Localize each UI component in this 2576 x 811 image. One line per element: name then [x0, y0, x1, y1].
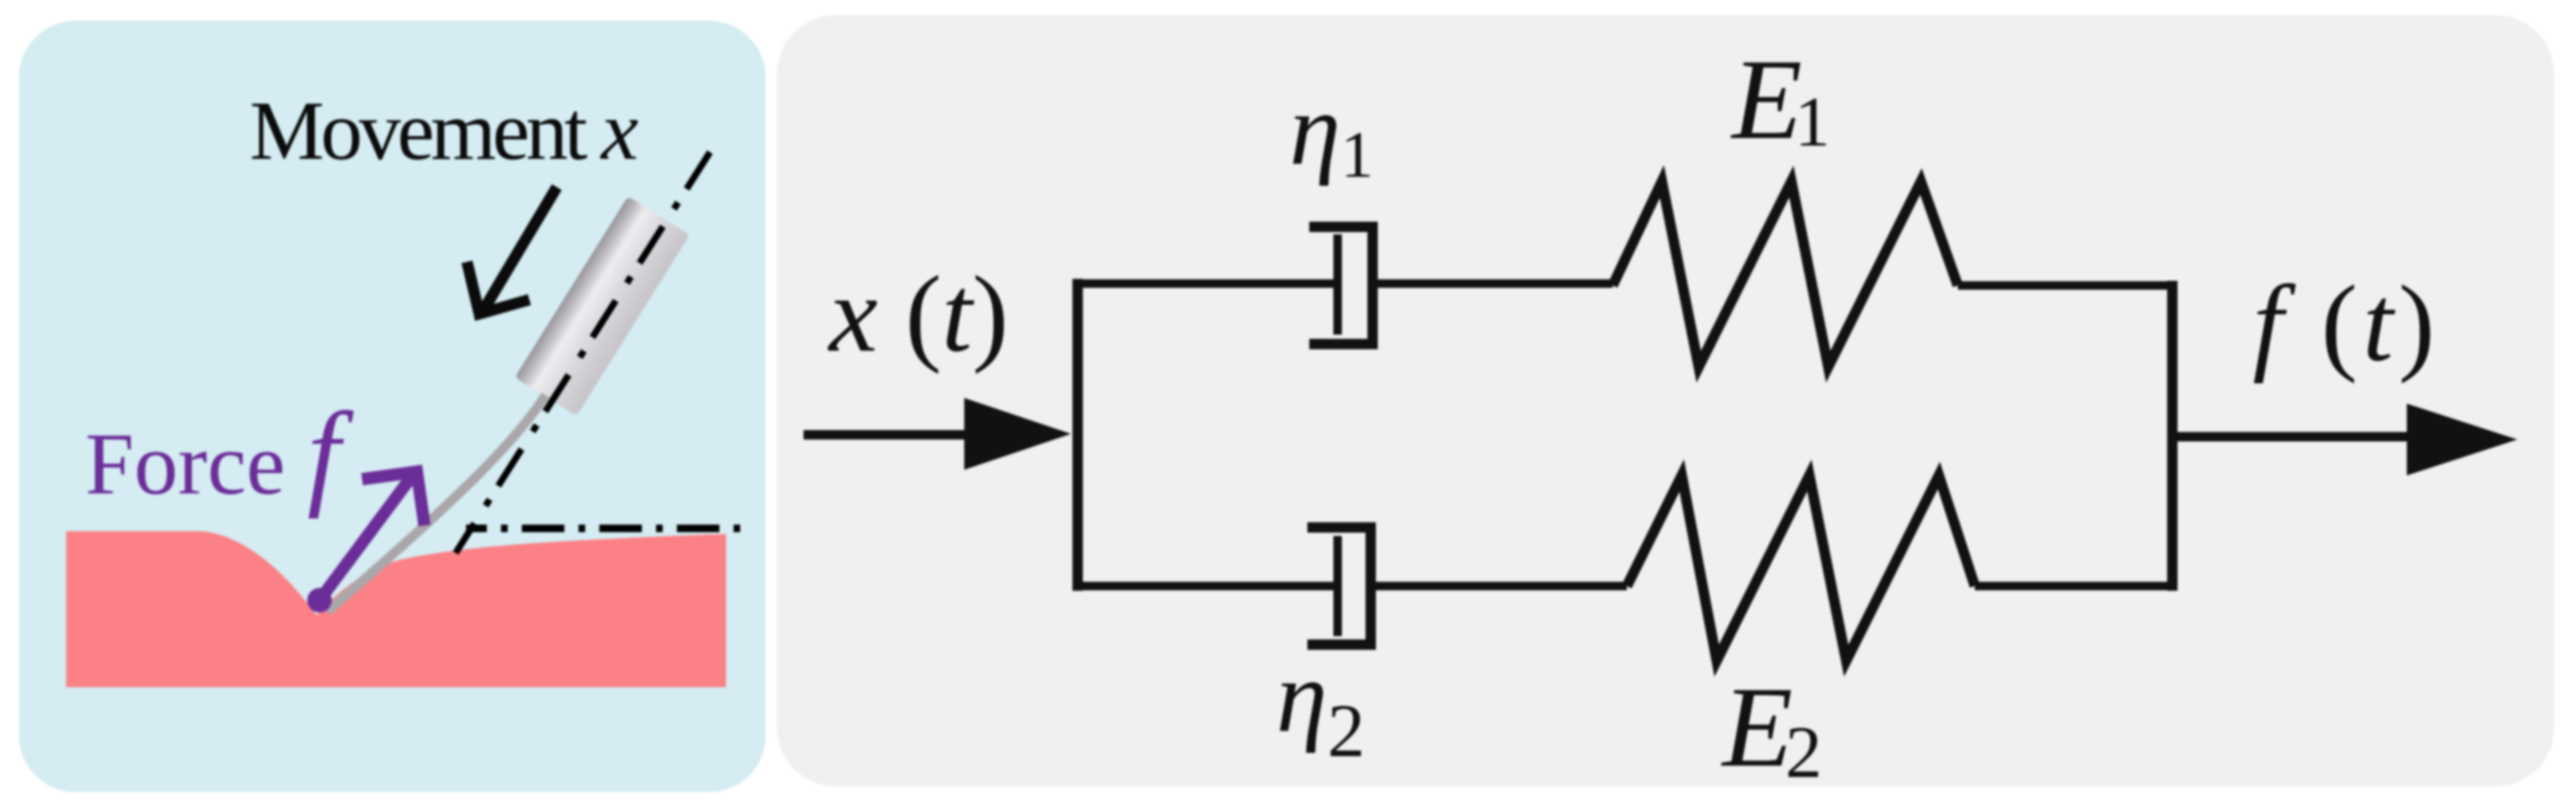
- input arrow x(t): shaft: [804, 430, 974, 440]
- probe flexible tip: [327, 395, 545, 612]
- top branch wire: bus to damper plate: [1073, 280, 1337, 288]
- spring E2: [1627, 475, 1975, 661]
- surface dash-dot line (horizontal): [466, 525, 753, 532]
- output arrow f(t): shaft: [2172, 432, 2416, 441]
- force contact dot: [307, 588, 332, 613]
- force arrow head: [362, 472, 424, 526]
- bottom wire: damper to spring: [1371, 582, 1627, 591]
- svg-text:f (t): f (t): [2253, 264, 2440, 385]
- probe body: [515, 197, 690, 416]
- svg-text:x (t): x (t): [827, 254, 1009, 375]
- left panel background: [19, 21, 766, 792]
- right panel background: [777, 15, 2554, 786]
- probe axis dash-dot line (diagonal): [456, 152, 710, 553]
- tissue (pink): [66, 531, 726, 687]
- damper eta2: cylinder cup: [1307, 527, 1371, 645]
- svg-text:Movement x: Movement x: [250, 85, 638, 178]
- movement arrow shaft: [484, 187, 557, 309]
- spring E1: [1613, 181, 1958, 367]
- damper eta2: piston plate: [1334, 536, 1342, 636]
- bottom wire: spring to right bus: [1975, 582, 2174, 591]
- movement arrow head: [467, 262, 529, 314]
- top wire: damper to spring: [1373, 280, 1613, 288]
- force arrow shaft: [320, 475, 413, 600]
- right bus wire: [2168, 281, 2178, 591]
- bottom branch wire: bus to damper plate: [1073, 582, 1337, 591]
- top wire: spring to right bus: [1958, 282, 2174, 290]
- damper eta1: cylinder cup: [1309, 227, 1373, 344]
- left bus wire: [1073, 279, 1083, 591]
- output arrow head: [2407, 404, 2517, 475]
- damper eta1: piston plate: [1334, 234, 1342, 335]
- input arrow head: [964, 398, 1071, 470]
